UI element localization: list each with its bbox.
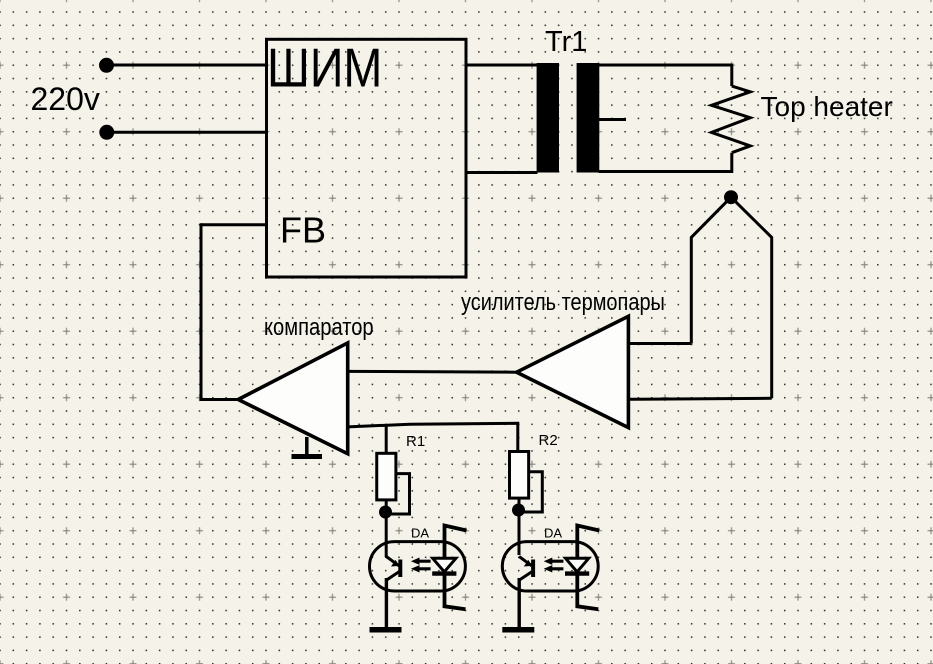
node R1 junction (379, 506, 392, 519)
wire PWM output top to transformer (466, 64, 538, 67)
svg-text:DA: DA (411, 525, 429, 540)
svg-text:Tr1: Tr1 (545, 26, 587, 58)
ground DA2 (502, 627, 534, 633)
wire R1 bottom lead (385, 500, 388, 557)
node 220v bottom terminal (99, 125, 114, 140)
svg-text:ШИМ: ШИМ (267, 37, 382, 98)
light arrow DA1 upper (417, 561, 431, 569)
svg-text:усилитель термопары: усилитель термопары (461, 288, 665, 315)
op-amp U1 PWM controller box (267, 39, 467, 277)
svg-text:220v: 220v (31, 81, 100, 117)
wire amplifier lower input (630, 398, 772, 399)
svg-text:DA: DA (544, 525, 562, 540)
wire 220v bottom line (106, 131, 267, 134)
transformer Tr1 secondary winding bar (577, 63, 600, 173)
wire FB feedback vertical (200, 223, 203, 401)
wire R1 top lead (385, 425, 388, 454)
node R2 junction (512, 504, 525, 517)
optocoupler DA2 body (502, 542, 598, 591)
transistor Q1 arrow (391, 560, 400, 567)
wire comparator lower input to R2 (348, 423, 518, 451)
wire LED1 anode lead (445, 526, 467, 559)
wire transformer center tap (599, 118, 627, 121)
op-amp thermocouple amplifier triangle (517, 316, 629, 427)
wire secondary top to heater (599, 65, 732, 86)
optocoupler DA1 body (370, 542, 466, 591)
wire thermocouple right leg (731, 197, 772, 398)
svg-text:R2: R2 (539, 432, 558, 449)
resistor Top heater zigzag (712, 86, 751, 153)
transistor Q2 arrow (524, 560, 533, 567)
ground below comparator (292, 437, 323, 457)
wire FB feedback horizontal (201, 223, 267, 226)
wire comparator output (200, 398, 239, 401)
transformer Tr1 primary winding bar (537, 63, 559, 173)
wire R2 bottom lead (518, 498, 521, 555)
wire thermocouple left leg (691, 197, 731, 343)
light arrow DA2 upper (550, 561, 564, 569)
svg-text:R1: R1 (406, 433, 425, 450)
transistor Q2 phototransistor (519, 557, 533, 581)
ground DA1 (370, 627, 402, 633)
wire amplifier upper input (630, 342, 691, 345)
svg-text:Top heater: Top heater (761, 91, 893, 122)
wire LED2 anode lead (577, 526, 599, 559)
diode LED2 (566, 558, 589, 572)
light arrow DA1 lower (411, 565, 420, 572)
wire DA1 emitter to ground (385, 578, 388, 629)
wire LED1 cathode lead (445, 574, 466, 610)
wire 220v top line (106, 64, 267, 67)
comparator triangle (238, 343, 348, 454)
transistor Q1 phototransistor (386, 557, 400, 581)
diode LED1 (433, 558, 456, 572)
wire PWM output bottom to transformer (466, 171, 538, 174)
wire LED2 cathode lead (577, 574, 598, 610)
wire R1 wiper bracket (390, 474, 410, 514)
wire amplifier output to comparator input (348, 370, 517, 374)
svg-text:компаратор: компаратор (264, 313, 374, 340)
wire secondary bottom to heater (599, 153, 732, 172)
diode LED1 cathode bar (432, 571, 456, 575)
wire DA2 emitter to ground (518, 578, 521, 629)
wire R2 wiper bracket (523, 472, 542, 512)
diode LED2 cathode bar (565, 571, 589, 575)
light arrow DA2 lower (544, 565, 553, 572)
node 220v top terminal (99, 58, 114, 73)
svg-text:FB: FB (280, 210, 326, 251)
resistor R1 (377, 453, 396, 500)
resistor R2 (510, 452, 529, 499)
node thermocouple junction (724, 190, 738, 204)
